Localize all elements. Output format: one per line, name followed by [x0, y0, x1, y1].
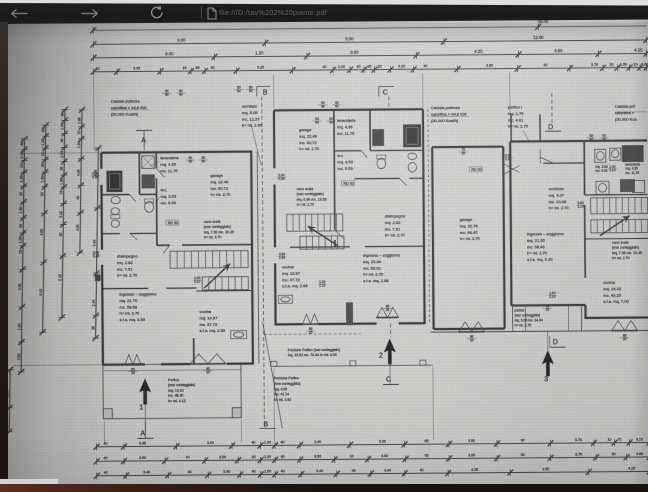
unit 2 wall disimpegno/soggiorno [290, 246, 350, 248]
section line D dashed [551, 93, 553, 126]
unit 2 portico column [346, 303, 352, 325]
unit 2 stair direction arrow [308, 226, 338, 246]
unit 1 bathtub [107, 171, 122, 192]
unit 2 bathtub [404, 125, 421, 147]
extension line bottom at x=240 [240, 420, 242, 442]
forward arrow icon [80, 8, 99, 19]
extension line left wall y=363 [13, 364, 101, 367]
left screen bezel [0, 22, 8, 484]
unit 3 portico inner line [524, 305, 526, 331]
unit 2 washbasin dark [373, 130, 384, 146]
unit 1 interior wall bath/wc [102, 194, 130, 196]
unit 1 window symbol left [125, 354, 141, 364]
unit 3 bath sink 1 [595, 149, 606, 162]
unit 3 stairs lower flight [591, 219, 648, 232]
extension line bottom at x=273 [273, 368, 276, 441]
unit 2 door swings [335, 230, 343, 238]
unit 2 portico pillar marks [271, 361, 277, 366]
bottom screen bezel [0, 484, 648, 492]
unit 3 bidet dark [620, 180, 634, 192]
unit 1 bathroom sink [111, 196, 120, 203]
dimension chain bottom row 2 [97, 457, 648, 461]
dimension chain top row 1 (45.00 overall) [93, 26, 646, 30]
dimension chain top row 3 [93, 53, 646, 57]
unit 1 washing machine [142, 156, 155, 169]
unit 1 wall garage bottom [157, 244, 170, 246]
unit 3 stair direction arrow [600, 216, 630, 236]
unit 1 interior wall wc bottom / disimpegno [102, 233, 120, 235]
unit 3 main block walls [510, 140, 647, 141]
unit 3 portico outline [512, 305, 581, 332]
back arrow icon [10, 8, 29, 19]
unit 2 arrow stem [389, 361, 391, 384]
unit 1 door swing bath [130, 194, 136, 201]
unit 2 interior wall lav/bath divider [369, 110, 371, 151]
extension line left wall y=151 [21, 152, 99, 155]
extension line top at x=275 [273, 74, 275, 108]
unit 1 wall pillar mark [95, 275, 100, 281]
unit 1 stair block lower wall [196, 290, 252, 292]
unit 2 bidet [408, 162, 416, 172]
unit 1 stairs upper flight [170, 251, 248, 269]
unit 2 interior wall garage divider [333, 110, 336, 230]
dimension chain left 4 [62, 110, 65, 318]
unit 3 stairs flight [591, 197, 648, 213]
unit 1 entrance arrow [139, 378, 151, 404]
extension line bottom at x=432 [432, 367, 435, 440]
unit 2 portico roof diagonal [263, 321, 283, 428]
unit 1 arrow stem line [144, 378, 146, 431]
url text [219, 8, 327, 17]
unit 1 interior wall lavanderia/garage [155, 152, 157, 168]
unit 1 door-window symbol [190, 354, 226, 364]
unit 1 portico outline [103, 364, 241, 419]
unit 2 portico dashed edge [264, 333, 361, 336]
unit 1 stair direction arrow [204, 264, 230, 288]
unit 3 toilet [596, 181, 609, 194]
unit 2 entrance arrow [384, 338, 396, 364]
unit 3 garage door diagonals [503, 163, 519, 172]
dimension chain left 1 [8, 370, 11, 432]
unit 1 door swing garage [156, 168, 164, 177]
bottom-left white corner sliver [0, 479, 58, 485]
dimension chain left 6 [96, 148, 99, 338]
unit 3 bath sink 2 [610, 148, 621, 160]
unit 2 kitchen sink [278, 295, 292, 303]
unit 2 portico bottom line [274, 365, 433, 366]
corridor dashed line between unit 2 and 3 [428, 109, 430, 323]
dimension chain left 2 [21, 139, 24, 372]
document icon [207, 7, 217, 20]
unit 1 wall disimpegno/soggiorno [102, 287, 148, 289]
unit 1 portico pillar left [103, 409, 112, 419]
dimension chain left 5 [80, 110, 82, 253]
extension line top at x=95 [93, 76, 96, 150]
unit 3 shower dark [622, 145, 643, 161]
unit 3 arrow stem [547, 331, 549, 350]
unit 2 stairs upper flight [287, 214, 343, 231]
section line C dashed bottom [390, 323, 392, 337]
unit 3 entry door [540, 157, 553, 163]
unit 1 wc toilet [145, 201, 154, 212]
unit 3 interior wall bath column [583, 141, 585, 195]
unit 1 portico pillar right [232, 408, 241, 418]
unit 2 window symbol [303, 314, 319, 324]
unit 2 exterior walls [274, 109, 423, 110]
reload icon [149, 5, 164, 20]
unit 1 corridoio leader line [251, 124, 261, 165]
dimension chain left 3 [43, 125, 46, 332]
unit 1 exterior walls [101, 152, 252, 153]
unit 1 kitchen sink [231, 331, 247, 339]
unit 3 entrance arrow [542, 350, 554, 376]
corridor wall between unit 1 and 2 [257, 152, 259, 364]
unit 3 garage walls [432, 145, 503, 148]
unit 1 toilet [111, 208, 119, 215]
unit 3 portico leader [523, 130, 529, 141]
extension line bottom at x=103 [103, 421, 105, 443]
dimension chain bottom row 3 [97, 471, 648, 475]
extension line top at x=511 [509, 73, 511, 115]
browser top white sliver [0, 0, 648, 7]
unit 2 sink oval [408, 153, 417, 159]
unit 3 interior wall stairs bottom [585, 237, 648, 239]
browser dark toolbar [0, 0, 648, 26]
unit 3 interior wall bath/stairs divider [585, 193, 648, 195]
section line B dashed [262, 96, 265, 428]
dimension chain bottom row 1 [97, 442, 648, 446]
section mark A top [136, 129, 152, 131]
unit 2 door-window symbol [376, 307, 398, 317]
unit 3 window symbol right [612, 321, 638, 331]
extension line top at x=424 [422, 73, 424, 107]
unit 2 interior wall wc bottom [354, 177, 399, 179]
dimension chain top row 2 [93, 40, 646, 44]
unit 1 kitchen stub wall [193, 338, 195, 364]
unit 2 interior wall lav-wc horizontal [334, 150, 361, 152]
unit 3 washer rects [632, 180, 644, 192]
unit 2 wc toilet [377, 158, 386, 168]
unit 1 shower [142, 175, 155, 188]
section line C dashed top [388, 96, 390, 109]
unit 3 window symbol left [459, 322, 485, 332]
unit 1 bidet [111, 220, 119, 227]
unit 3 ground line [431, 330, 648, 332]
unit 1 stairs lower flight [202, 277, 248, 290]
unit 3 interior wall corridor [543, 162, 584, 164]
unit 2 stairs lower flight [300, 236, 344, 249]
unit 3 portico recess walls top [510, 115, 512, 142]
unit 1 interior wall bath/lavanderia [138, 152, 140, 194]
dimension chain top row 4 [94, 67, 647, 71]
